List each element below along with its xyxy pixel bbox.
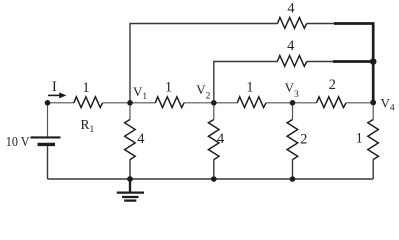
svg-text:V2: V2 (196, 82, 210, 102)
wire: vertical resistor down to bottom bus (213, 160, 215, 180)
junction right bus / second branch (370, 58, 377, 65)
resistor 2 (vertical at x=292) (287, 120, 298, 160)
wire: V1 riser up to top branch (130, 24, 278, 103)
wire: vertical resistor down to bottom bus (372, 160, 374, 180)
wire: bottom bus (48, 178, 374, 180)
svg-text:4: 4 (137, 131, 145, 147)
junction bottom V2 (211, 176, 217, 182)
svg-text:1: 1 (82, 80, 89, 96)
wire: node down to vertical resistor (x=130) (129, 103, 131, 120)
wire: main bus left node to R1 (48, 102, 75, 104)
wire: vertical resistor down to bottom bus (292, 160, 294, 180)
resistor 4 (second branch) (277, 56, 307, 67)
current arrow I (48, 92, 66, 98)
resistor 1 (vertical at x=373) (368, 120, 379, 160)
wire: left branch node down to battery (47, 103, 49, 137)
thick wire: top right corner down to V4 (334, 24, 373, 103)
svg-text:V4: V4 (381, 96, 395, 114)
wire: resistor to node V3 (266, 102, 293, 104)
wire: R1 to node V1 (103, 102, 130, 104)
ground bar 2 (122, 196, 139, 198)
svg-text:4: 4 (217, 131, 225, 147)
wire: top resistor to thick segment (307, 23, 335, 25)
svg-text:2: 2 (329, 77, 336, 93)
wire: vertical resistor down to bottom bus (129, 160, 131, 180)
ground bar 1 (117, 191, 144, 193)
svg-text:2: 2 (300, 132, 307, 148)
node V2 (211, 100, 217, 106)
resistor 1 (V1 to V2) (155, 97, 184, 108)
svg-text:R1: R1 (81, 117, 95, 135)
svg-text:V3: V3 (285, 80, 299, 100)
junction ground node (127, 176, 133, 182)
wire: resistor to node V4 (346, 102, 373, 104)
wire: node down to vertical resistor (x=292) (292, 103, 294, 120)
ground symbol stem (129, 179, 131, 192)
resistor 2 (V3 to V4) (317, 97, 347, 108)
svg-text:10 V: 10 V (6, 134, 30, 149)
svg-text:4: 4 (287, 38, 295, 54)
wire: resistor to node V2 (184, 102, 214, 104)
resistor 4 (top branch) (278, 18, 307, 29)
junction bottom V3 (290, 176, 296, 182)
resistor R1 value 1 (left node to V1) (74, 97, 103, 108)
wire: battery down to bottom bus (47, 146, 49, 179)
ground bar 3 (124, 199, 136, 201)
node V1 (127, 100, 133, 106)
resistor 4 (vertical at x=214) (208, 120, 219, 160)
wire: V1 to resistor 1 (130, 102, 155, 104)
wire: second resistor to thick segment (307, 61, 334, 63)
node V3 (290, 100, 296, 106)
resistor 1 (V2 to V3) (237, 97, 266, 108)
svg-text:4: 4 (287, 1, 295, 17)
wire: V3 to resistor 2 (293, 102, 317, 104)
node left (source +) (45, 100, 51, 106)
svg-text:1: 1 (356, 131, 363, 147)
thick wire: second branch into right bus junction (333, 60, 373, 63)
resistor 4 (vertical at x=130) (125, 120, 136, 160)
wire: V2 riser up to second branch (214, 62, 278, 103)
battery source 10 V: short thick plate (-) (38, 143, 56, 146)
svg-text:1: 1 (165, 80, 172, 96)
battery source 10 V: long plate (+) (31, 136, 61, 138)
svg-text:V1: V1 (133, 84, 147, 102)
node V4 (370, 100, 376, 106)
svg-text:1: 1 (246, 80, 253, 96)
wire: node down to vertical resistor (x=373) (372, 103, 374, 120)
wire: node down to vertical resistor (x=214) (213, 103, 215, 120)
svg-text:I: I (52, 79, 57, 95)
wire: V2 to resistor 1 (214, 102, 238, 104)
